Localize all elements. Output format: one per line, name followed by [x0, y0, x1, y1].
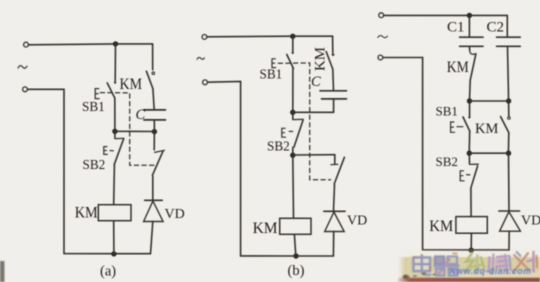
svg-text:KM: KM — [313, 47, 329, 71]
coil KM circuit b — [280, 218, 311, 234]
node junction top c — [467, 13, 472, 18]
svg-text:KM: KM — [253, 220, 278, 237]
AC source tilde b — [197, 57, 204, 59]
node junction mid2 b — [290, 153, 295, 158]
dash E-SB1 c — [457, 126, 464, 128]
wire top rail c — [384, 14, 508, 16]
scan smudge bottom-left — [0, 261, 5, 282]
watermark glyph 1 dian — [414, 254, 432, 275]
node junction rail2 left c — [467, 98, 472, 103]
contact KM (NO) mid circuit c — [501, 101, 511, 153]
capacitor C circuit a — [144, 110, 166, 132]
E glyph SB1 a — [95, 89, 99, 99]
svg-text:(a): (a) — [100, 264, 116, 280]
E glyph SB2 b — [282, 128, 286, 137]
node junction rail3 left c — [467, 151, 472, 156]
svg-text:C1: C1 — [447, 19, 465, 35]
terminal 1 (circuit a) — [24, 42, 29, 47]
watermark glyph 4 violet — [489, 254, 511, 275]
svg-text:SB2: SB2 — [83, 157, 106, 172]
watermark glyph 3 green — [465, 253, 485, 274]
wire mid rail a — [115, 130, 154, 132]
terminal 1 (circuit c) — [379, 13, 384, 18]
watermark dark blob left of band — [403, 275, 410, 279]
wire cap to junction b — [293, 111, 334, 113]
svg-text:KM: KM — [75, 205, 98, 222]
band specks — [413, 272, 435, 277]
node junction mid-right a — [152, 129, 157, 134]
pushbutton SB2 (NC) circuit a — [110, 131, 124, 204]
E glyph SB2 c — [460, 171, 464, 181]
diode VD circuit a — [144, 200, 164, 253]
diode VD circuit b — [324, 211, 345, 256]
svg-text:KM: KM — [120, 76, 143, 93]
node junction mid1 b — [290, 110, 295, 115]
capacitor C1 circuit c — [460, 15, 483, 46]
wire left rail c — [383, 58, 471, 250]
node junction bottom b — [293, 253, 298, 258]
svg-text:KM: KM — [475, 121, 498, 137]
wire top rail a — [29, 43, 153, 46]
node junction rail2 right c — [506, 98, 511, 103]
watermark url text — [449, 266, 531, 276]
wire coil to bottom c — [470, 233, 472, 250]
wire coil to bottom b — [294, 234, 295, 256]
svg-text:C2: C2 — [487, 19, 505, 35]
watermark glyph 2 qi — [434, 254, 460, 276]
linkage dashes SB1 b — [278, 63, 330, 180]
watermark glyph 5 red — [513, 251, 537, 273]
contact KM (NO) circuit b — [326, 36, 334, 90]
watermark wash overlay — [407, 250, 540, 277]
svg-text:SB1: SB1 — [260, 67, 283, 82]
capacitor C2 circuit c — [497, 15, 521, 100]
contact KM (NO) circuit a — [146, 71, 154, 110]
wire top rail b — [207, 35, 333, 38]
wire left rail a — [28, 89, 114, 253]
wire branch1 upper a — [114, 44, 116, 81]
diode VD circuit c — [499, 211, 521, 250]
wire junction2 to coil b — [292, 155, 295, 218]
coil KM circuit a — [98, 205, 131, 221]
coil KM circuit c — [456, 217, 487, 234]
AC source tilde a — [18, 66, 27, 69]
wire left rail b — [208, 81, 296, 256]
watermark maroon stripe — [398, 278, 540, 282]
pushbutton SB1 (NO) circuit a — [107, 81, 116, 130]
terminal 1 (circuit b) — [202, 35, 207, 40]
wire junction to right branch b — [293, 154, 335, 156]
wire bottom rail b — [296, 255, 333, 257]
wire bottom rail a — [114, 253, 150, 255]
node junction top b — [290, 34, 295, 39]
E glyph SB2 a — [104, 147, 108, 155]
svg-text:SB2: SB2 — [436, 154, 458, 169]
pushbutton SB1 (NO) circuit c — [463, 101, 471, 153]
node junction rail3 right c — [506, 151, 511, 156]
terminal 2 (circuit b) — [203, 80, 208, 85]
contact linked (NC) circuit b — [331, 155, 344, 211]
wire branch2 upper a — [152, 44, 154, 70]
svg-text:(b): (b) — [288, 263, 305, 279]
capacitor C circuit b — [320, 91, 347, 113]
svg-text:SB1: SB1 — [436, 104, 458, 119]
svg-text:KM: KM — [429, 218, 453, 235]
watermark band light row — [430, 272, 540, 278]
svg-text:KM: KM — [447, 59, 469, 76]
pushbutton SB1 (NO) circuit b — [287, 36, 294, 112]
svg-text:SB1: SB1 — [82, 99, 105, 114]
node junction mid-left a — [112, 129, 117, 134]
wire rail2 c — [470, 100, 509, 102]
wire bottom rail c — [471, 249, 509, 251]
svg-text:SB2: SB2 — [267, 139, 290, 154]
node junction bottom a — [111, 251, 116, 256]
svg-text:VD: VD — [347, 214, 367, 229]
contact KM (NO) below C1 circuit c — [469, 46, 476, 101]
svg-text:www.dq-dian.com: www.dq-dian.com — [449, 266, 531, 276]
wire right branch to diode c — [508, 153, 511, 211]
svg-text:VD: VD — [165, 207, 185, 222]
svg-text:C: C — [311, 74, 321, 90]
watermark tan band — [398, 257, 540, 279]
svg-text:C: C — [136, 107, 146, 123]
node junction bottom c — [469, 248, 474, 253]
E glyph SB1 b — [272, 59, 276, 68]
wire rail3 c — [469, 152, 508, 154]
E glyph SB1 c — [451, 122, 455, 132]
terminal 2 (circuit a) — [23, 87, 28, 92]
pushbutton SB2 (NC) circuit c — [467, 153, 479, 216]
pushbutton SB2 (NC) circuit b — [289, 112, 303, 155]
linkage dashes SB1 a — [100, 93, 154, 166]
svg-text:VD: VD — [521, 214, 540, 229]
AC source tilde c — [378, 35, 388, 37]
contact linked (NC) lower-right circuit a — [152, 132, 164, 200]
wire coil to bottom a — [113, 221, 115, 254]
terminal 2 (circuit c) — [378, 55, 383, 60]
node junction top a — [113, 41, 118, 46]
